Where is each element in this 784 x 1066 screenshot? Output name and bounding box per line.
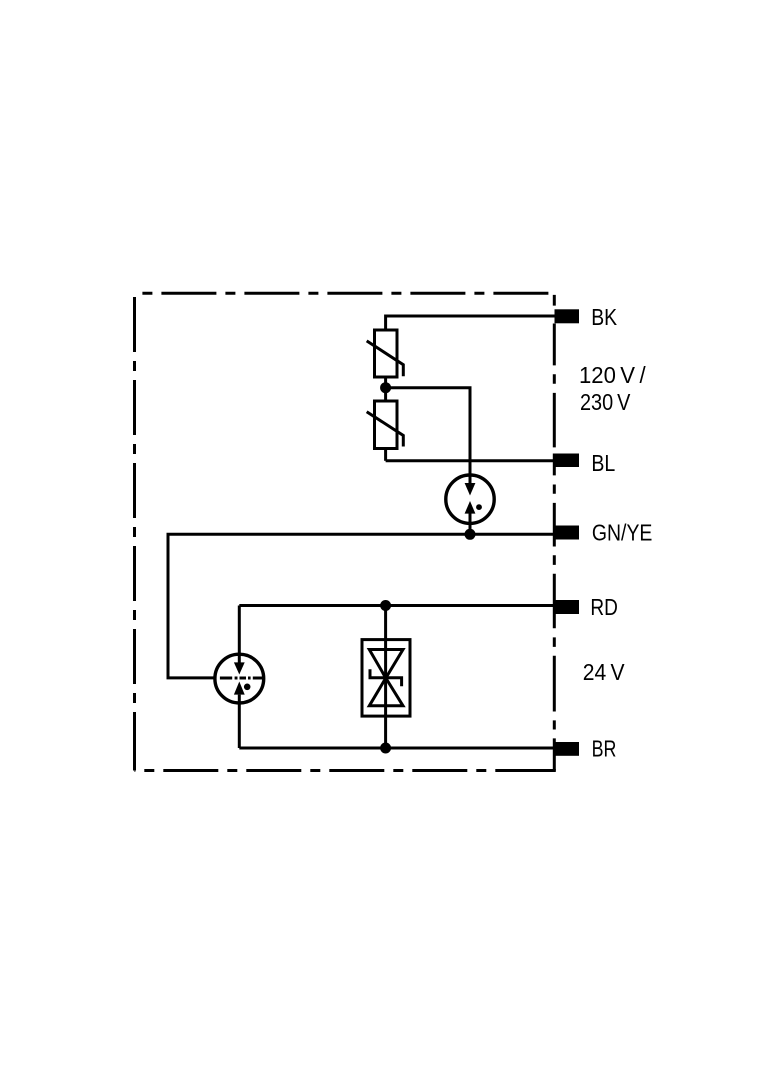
terminal BK block [555,309,580,323]
gas discharge tube F1 circle [446,475,494,523]
wire BL: varistor RV2 bottom to terminal BL [386,459,556,462]
isolating spark gap F2 circle [215,654,264,703]
terminal BL block [555,454,580,468]
D1 lower triangle [369,678,403,706]
F2 down arrowhead [234,662,245,674]
wire RV2 bottom to BL wire [384,448,387,461]
device boundary bottom border (dash-dot) [135,769,555,772]
svg-text:BR: BR [592,735,617,761]
F2 up arrowhead [234,682,245,695]
suppressor diode D1 box [362,640,410,717]
D1 upper triangle [369,650,403,679]
terminal RD block [555,600,580,614]
wire F2 bottom to BR wire [238,695,241,748]
node B junction dot [465,529,476,540]
F1 up arrowhead [465,501,476,514]
F2 gas filling dot [244,684,251,691]
F1 down arrowhead [465,483,476,496]
node A junction dot [380,382,391,393]
varistor RV1 diagonal stroke [367,341,404,376]
wire RV1 bottom to node A [384,376,387,388]
svg-text:120 V /: 120 V / [579,362,646,388]
device boundary bottom-right corner stub [550,769,556,772]
wire RD: from left corner to terminal RD [239,604,556,607]
wire BR: to terminal BR [239,747,556,750]
svg-text:RD: RD [590,594,618,620]
terminal BR block [555,742,580,756]
wire GN/YE: terminal to left side and down to isolating spark gap F2 [168,534,556,678]
wire node A to gas discharge tube F1 top [386,388,470,483]
D1 cathode bar with hooks [370,669,402,686]
F1 gas filling dot [476,504,482,510]
terminal GN/YE block [555,526,580,540]
wire RD left segment down to F2 top [238,606,241,663]
svg-text:230 V: 230 V [580,389,631,415]
node D junction dot on BR wire [380,743,391,754]
varistor RV2 body [375,401,398,449]
wire BK: varistor RV1 top to terminal BK [386,316,556,331]
svg-text:24 V: 24 V [583,659,625,685]
wire node A to varistor RV2 top [384,388,387,402]
wire F1 bottom to node B [469,513,472,534]
device boundary right border (dash-dot segments) [553,295,556,771]
svg-text:GN/YE: GN/YE [592,520,653,546]
device boundary top border (dash-dot) [135,292,549,295]
device boundary left border (dash-dot) [133,297,136,771]
varistor RV2 diagonal stroke [367,412,404,447]
node C junction dot on RD wire [380,600,391,611]
svg-text:BL: BL [591,450,615,476]
device boundary left border corner stub [133,762,136,771]
wire through suppressor diode D1 [384,606,387,749]
svg-text:BK: BK [591,304,617,330]
F2 isolation dash-dot line [220,677,263,680]
varistor RV1 body [375,330,398,377]
